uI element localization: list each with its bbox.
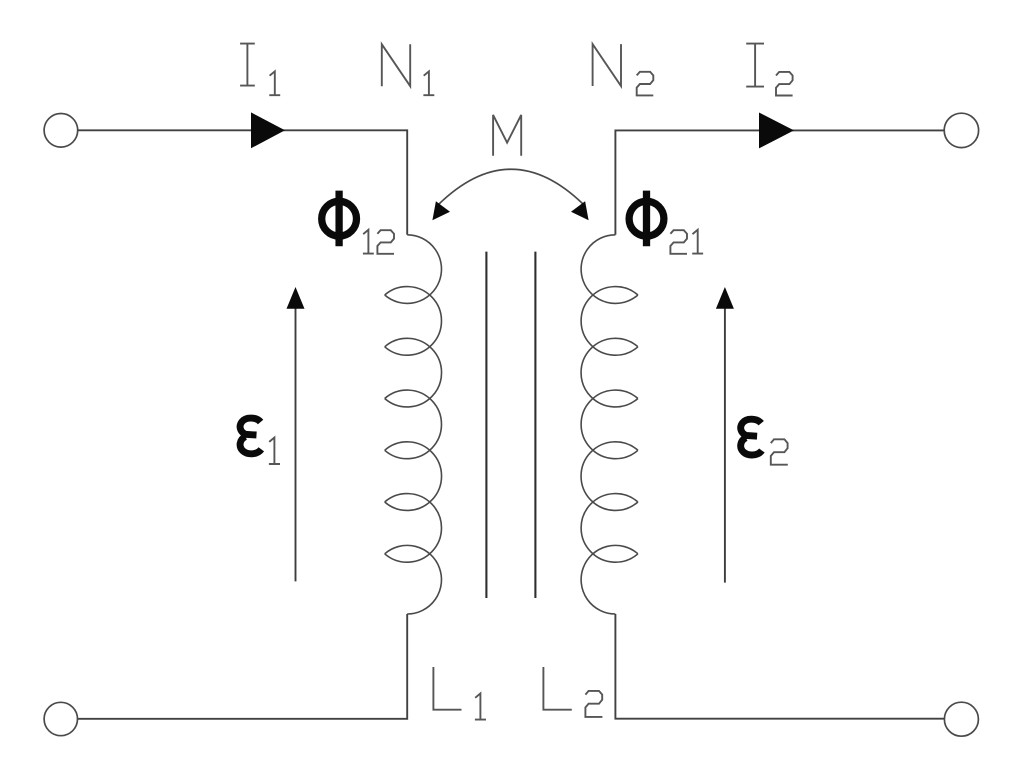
terminal (bottom-left) — [44, 702, 77, 735]
terminal (top-left) — [44, 114, 78, 148]
label L2 — [543, 667, 602, 717]
label N1 — [382, 44, 435, 95]
flux label Phi21 — [629, 191, 703, 254]
wire (bottom-right) — [615, 614, 944, 719]
label M (mutual inductance) — [493, 115, 521, 156]
coupling arc M — [439, 169, 584, 204]
terminal (top-right) — [944, 113, 978, 147]
arrowhead (coupling arc, left) — [432, 201, 450, 220]
core line (right) — [534, 252, 536, 598]
emf arrow e1 — [287, 287, 305, 581]
emf arrow e2 — [716, 287, 734, 583]
inductor L1 coil (7 turns) — [385, 235, 442, 614]
arrow I1 (current direction) — [251, 112, 285, 148]
arrow I2 (current direction) — [759, 113, 794, 149]
label I2 — [746, 44, 792, 96]
arrowhead (coupling arc, right) — [571, 201, 589, 220]
label L1 — [433, 667, 486, 720]
wire (bottom-left) — [77, 614, 407, 719]
label epsilon2 — [741, 419, 788, 464]
inductor L2 coil (7 turns) — [581, 235, 638, 614]
terminal (bottom-right) — [944, 702, 978, 736]
label epsilon1 — [240, 418, 280, 464]
core line (left) — [485, 252, 487, 598]
wire (top-right) — [615, 130, 944, 234]
label N2 — [593, 44, 654, 95]
wire (top-left horizontal) — [78, 130, 408, 235]
flux label Phi12 — [322, 191, 394, 254]
label I1 — [240, 44, 280, 96]
